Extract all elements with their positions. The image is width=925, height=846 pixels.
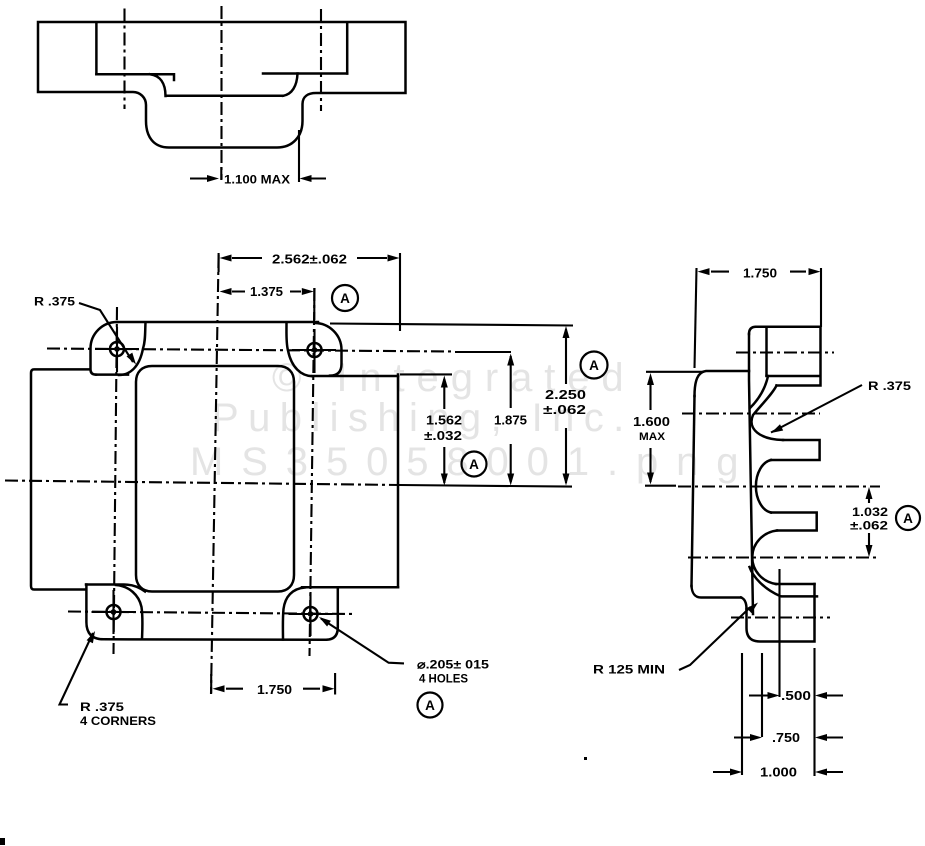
top view outer flange outline (38, 22, 406, 148)
front view top bar bottom segment right joining right rect top edge (312, 375, 398, 378)
side view scallop 2 (756, 460, 771, 513)
side view centerline scallop1 (682, 412, 820, 414)
dim 1.562 tick+line (400, 374, 452, 483)
front view right rect right edge (397, 375, 400, 588)
svg-text:⌀.205± 015: ⌀.205± 015 (417, 658, 489, 672)
datum circle A top (332, 285, 358, 311)
side view dim 1.000 lines (713, 771, 843, 773)
datum circle A mid (462, 452, 487, 477)
front view bottom bar top segment right joining right rect bottom edge (302, 586, 398, 589)
side view dim .500 lines (749, 694, 843, 696)
front view central square opening (136, 366, 294, 592)
front view hole bottom-left (107, 605, 121, 619)
front view bottom bar top segment left (86, 585, 145, 592)
tick for 1.375 right (313, 288, 315, 320)
svg-text:±.032: ±.032 (424, 429, 462, 443)
top view center tick at dim (220, 167, 222, 180)
side view scallop 3 (752, 531, 777, 585)
svg-text:1.750: 1.750 (257, 683, 292, 697)
side view tooth 1 (771, 440, 820, 460)
top view centerline center (220, 6, 222, 180)
dimension 1.100 arrows (207, 175, 219, 182)
svg-text:4 CORNERS: 4 CORNERS (80, 716, 156, 728)
svg-text:1.750: 1.750 (743, 267, 777, 281)
leader R.375 bottom (60, 633, 94, 705)
svg-text:1.032: 1.032 (852, 505, 888, 519)
side view dim 1.750 lines (711, 271, 806, 273)
side view inner S curve bottom (750, 567, 781, 596)
side view tooth 2 (771, 513, 817, 531)
front view vertical centerline right holes (310, 288, 315, 656)
dim 1.600 tick+lines (645, 372, 704, 486)
front view top-left lobe outline (91, 322, 118, 375)
front view vertical centerline center (211, 255, 219, 694)
svg-text:A: A (903, 511, 913, 526)
svg-text:MAX: MAX (639, 431, 666, 443)
front view hole top-right (308, 343, 322, 357)
side view long vertical through tab (778, 569, 780, 697)
side view 1.750 extension left (695, 268, 697, 368)
front view left rect (31, 369, 90, 589)
svg-text:.500: .500 (781, 689, 811, 703)
top view notch left vertical (95, 23, 98, 74)
side view dim .750 lines (734, 736, 843, 738)
top view notch right vertical (346, 23, 349, 74)
side view centerline scallop3 (688, 556, 880, 558)
side view centerline scallop2 (678, 485, 880, 487)
side view centerline tab (731, 616, 830, 618)
side view dim 1.032 lines (868, 499, 870, 545)
front view bottom-left lobe outline (86, 585, 103, 640)
svg-text:1.600: 1.600 (633, 415, 670, 429)
front view top-left lobe inner arc (119, 323, 146, 376)
svg-text:2.250: 2.250 (545, 388, 586, 402)
top view notch bottom line A (96, 74, 174, 80)
tick for 2.562/1.375 left (center col solid) (218, 253, 220, 272)
extension vertical for 2.562 right (399, 253, 401, 331)
side view tab left edge and bottom (747, 584, 815, 642)
dim 1.375 lines (232, 290, 301, 292)
front view top bar top edge (117, 321, 318, 324)
front view bottom-right lobe outline (326, 587, 338, 640)
top view notch bottom line B (263, 72, 347, 75)
side view cap left and body left edge (749, 334, 753, 614)
side view flange bottom fillet and edge (692, 586, 742, 598)
front view horizontal centerline middle (5, 481, 400, 486)
svg-text:2.562±.062: 2.562±.062 (272, 253, 347, 267)
top view centerline right (320, 9, 322, 111)
watermark (190, 356, 756, 484)
leader R.375 top (79, 303, 133, 362)
side view centerline cap (736, 351, 834, 353)
svg-text:R .375: R .375 (80, 702, 125, 714)
top view extension line for 1.100 (298, 130, 300, 182)
svg-text:±.062: ±.062 (543, 403, 586, 417)
svg-text:±.062: ±.062 (850, 519, 888, 533)
front view bottom-right lobe inner arc (283, 588, 305, 640)
svg-text:1.375: 1.375 (250, 285, 283, 299)
front view vertical centerline left holes (114, 307, 118, 654)
svg-text:R .375: R .375 (868, 381, 912, 393)
side view extension verticals below tab (742, 648, 815, 776)
dim 1.875 line (510, 356, 512, 482)
side view flange left edge (692, 396, 695, 586)
front view top-right lobe outline (315, 323, 342, 376)
front view top bar bottom segment left (96, 373, 128, 376)
side view inner S curve (750, 376, 768, 408)
front view horizontal centerline top holes (47, 349, 455, 352)
svg-text:R .375: R .375 (34, 297, 76, 309)
front view hole bottom-right (304, 607, 318, 621)
datum circle A bottom (418, 693, 443, 718)
mid baseline solid (400, 485, 572, 487)
front view hole top-left (110, 342, 124, 356)
dimension 1.100 MAX lines (190, 177, 326, 179)
svg-text:1.100 MAX: 1.100 MAX (224, 175, 290, 187)
side view 1.750 extension right (820, 268, 822, 327)
side view leader R.125 (679, 607, 751, 670)
front view bottom-left lobe inner arc (116, 585, 143, 639)
side view cap underside (767, 375, 820, 378)
side view cap outline (749, 327, 821, 386)
svg-text:1.000: 1.000 (760, 766, 797, 780)
svg-text:R 125 MIN: R 125 MIN (593, 665, 665, 677)
svg-text:A: A (589, 358, 599, 373)
dim 1.750 lines (226, 688, 320, 690)
side view scallop 1 (752, 386, 783, 441)
front view bottom bar bottom edge (104, 638, 327, 641)
svg-text:1.562: 1.562 (426, 414, 462, 428)
side view flange to tab S curve (741, 598, 747, 610)
svg-text:A: A (425, 698, 435, 713)
top view centerline left (123, 9, 125, 110)
arrows front view (220, 255, 232, 262)
extension line top edge to 2.250 (330, 324, 573, 326)
front view top-right lobe inner arc (286, 324, 312, 377)
svg-text:A: A (469, 457, 479, 472)
datum circle A right of 2.250 (581, 352, 608, 379)
side view arrows (698, 268, 710, 275)
top holes centerline extension tick (455, 351, 511, 353)
dim 2.250 line (565, 329, 567, 483)
stray marks (0, 838, 5, 845)
svg-text:1.875: 1.875 (494, 414, 527, 428)
svg-text:A: A (340, 291, 350, 306)
dim 1.750 bottom ticks (211, 673, 335, 695)
dim 2.562 lines (232, 257, 387, 259)
datum circle A side view (896, 506, 920, 530)
svg-text:.750: .750 (772, 731, 800, 745)
leader hole callout (321, 619, 404, 664)
side view flange top edge (695, 371, 750, 396)
solid crosshairs at holes (92, 327, 337, 636)
svg-text:4 HOLES: 4 HOLES (419, 672, 468, 686)
side view tooth 3 (776, 584, 817, 596)
top view shallow recess (150, 74, 298, 97)
side view leader R.375 (771, 385, 862, 433)
side view cap inner vertical (765, 327, 768, 376)
front view horizontal centerline bottom holes (68, 612, 355, 615)
